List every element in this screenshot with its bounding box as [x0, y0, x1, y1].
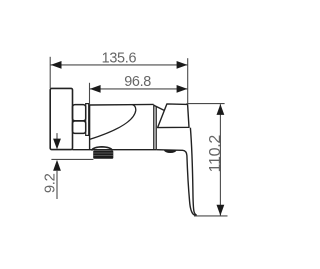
wall flange plate	[50, 88, 72, 149]
dimension line 96.8	[90, 88, 188, 90]
knurl rib highlights	[93, 153, 113, 156]
svg-text:110.2: 110.2	[207, 135, 224, 173]
svg-text:135.6: 135.6	[102, 50, 137, 66]
washer ring	[86, 104, 89, 136]
lever grip front edge	[190, 128, 196, 216]
arrow 9.2 up	[53, 160, 61, 171]
9.2 lower arrow shaft	[56, 170, 58, 199]
body end-cap ring lines	[154, 105, 156, 150]
underside line to lever	[156, 150, 187, 156]
extension line bottom (9.2)	[51, 158, 93, 160]
arrow 9.2 down	[53, 139, 61, 150]
9.2 upper arrow shaft	[56, 133, 58, 140]
hex connection nut upper facet	[73, 105, 86, 121]
arrow 96.8 left	[90, 85, 101, 93]
extension line (96.8 left)	[89, 83, 91, 105]
arrow 135.6 right	[177, 61, 188, 69]
knurled outlet nut	[93, 151, 113, 159]
outlet dome cap	[91, 147, 112, 151]
hex connection nut lower facet	[73, 121, 86, 133]
svg-text:96.8: 96.8	[124, 74, 151, 90]
extension line bottom (110.2)	[194, 215, 228, 217]
dimension line 135.6	[50, 64, 188, 66]
arrow 110.2 bottom	[217, 205, 225, 216]
body bottom edge	[72, 149, 156, 151]
extension line right (135.6/96.8)	[187, 58, 189, 103]
extension line top (110.2)	[187, 103, 225, 105]
extension line left (135.6)	[49, 57, 51, 88]
under-body dark bump	[164, 150, 177, 153]
lever grip back edge	[187, 156, 196, 216]
arrow 135.6 left	[51, 61, 62, 69]
arrow 96.8 right	[177, 85, 188, 93]
cartridge cover curve	[90, 105, 136, 140]
handle base cap	[158, 104, 189, 128]
svg-text:9.2: 9.2	[42, 173, 58, 193]
arrow 110.2 top	[217, 104, 225, 115]
dimension line 110.2	[219, 104, 221, 215]
valve body outline	[90, 104, 165, 149]
